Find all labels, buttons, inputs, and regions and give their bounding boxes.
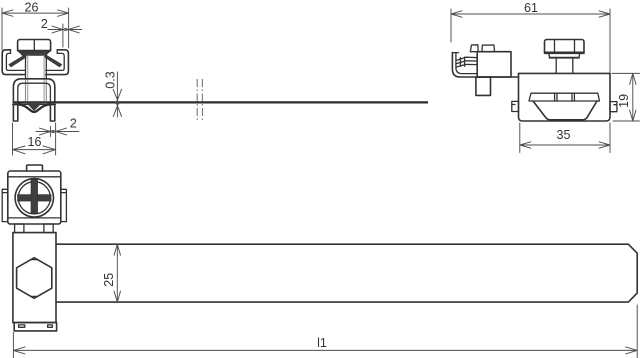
right view: lower tab xyxy=(476,77,491,95)
front view: hex bolt head xyxy=(17,258,52,299)
dimension 2 (top, wall thickness) xyxy=(41,17,82,47)
front view: screw cube xyxy=(8,171,61,224)
right view: right side tab xyxy=(610,102,617,112)
dimension 19 xyxy=(612,73,640,121)
right view: saddle trapezoid xyxy=(533,101,597,120)
right view: bolt head xyxy=(545,40,585,54)
left view: right leg xyxy=(50,105,54,121)
front view: left flange xyxy=(2,189,8,221)
svg-text:0.3: 0.3 xyxy=(103,71,117,88)
right view: bolt washer xyxy=(549,53,580,57)
svg-text:26: 26 xyxy=(25,0,39,14)
dimension 61 xyxy=(451,1,610,73)
right view: left side tab xyxy=(512,101,519,111)
front view: bottom plate xyxy=(14,323,56,331)
dimension 35 xyxy=(520,123,610,153)
left view: bolt head xyxy=(18,40,51,51)
front view: screw head circle xyxy=(15,179,53,217)
left view: V-notch gull wing xyxy=(19,105,50,112)
right view: L-bracket xyxy=(452,53,518,77)
dimension 16 xyxy=(13,123,56,155)
front view: right flange xyxy=(61,189,67,221)
dimension 26 (top-left view overall width) xyxy=(2,0,69,50)
left view: V-notch dark triangle xyxy=(26,102,43,111)
svg-text:61: 61 xyxy=(524,1,538,15)
left view: left wall (bent sheet wing) xyxy=(2,50,25,75)
right view: clip tab 2 xyxy=(482,45,495,52)
left view: washer with dark band xyxy=(18,51,51,56)
front view: right foot xyxy=(44,224,53,233)
left view: center block (bolt body) xyxy=(26,55,47,101)
svg-text:2: 2 xyxy=(41,17,48,31)
right view: clip tab 1 xyxy=(470,45,478,52)
left view: right spring arm xyxy=(44,55,61,67)
left view: left leg xyxy=(13,105,17,121)
svg-text:19: 19 xyxy=(617,94,631,108)
right view: saddle band xyxy=(529,93,600,101)
svg-text:2: 2 xyxy=(70,117,77,131)
dimension 0.3 xyxy=(103,71,121,117)
right view: clamp jaw stack xyxy=(456,57,477,67)
front view: left foot xyxy=(15,224,24,233)
right view: main block xyxy=(477,52,511,77)
front view: lower body xyxy=(13,233,56,323)
dimension 25 xyxy=(102,244,120,302)
left view: left spring arm xyxy=(9,55,26,67)
front view: top tab xyxy=(27,165,43,171)
front view: phillips cross xyxy=(18,179,51,213)
left view: clamp plate bottom edge xyxy=(13,103,56,105)
right view: busbar body xyxy=(519,73,611,121)
left view: right wall (bent sheet wing) xyxy=(46,50,69,75)
svg-text:25: 25 xyxy=(102,273,116,287)
left view: stirrup outer xyxy=(13,79,54,101)
centerline break marks xyxy=(197,79,202,123)
conductor line xyxy=(13,101,428,103)
svg-text:35: 35 xyxy=(557,128,571,142)
right view: bolt shaft xyxy=(556,58,573,74)
svg-text:l1: l1 xyxy=(317,336,327,350)
busbar (bottom view) xyxy=(56,244,637,302)
svg-text:16: 16 xyxy=(28,135,42,149)
dimension 2 (bottom, leg thickness) xyxy=(36,117,79,156)
left view: stirrup inner xyxy=(18,83,51,101)
dimension l1 xyxy=(13,305,637,358)
